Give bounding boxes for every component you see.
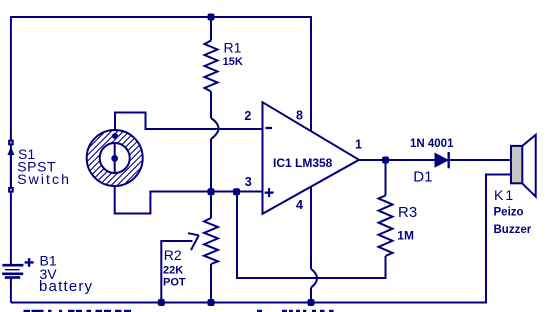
svg-text:1: 1 bbox=[355, 138, 362, 152]
svg-text:8: 8 bbox=[296, 109, 303, 123]
svg-text:R3: R3 bbox=[398, 204, 417, 221]
svg-text:2: 2 bbox=[244, 109, 251, 123]
svg-text:15K: 15K bbox=[223, 56, 243, 68]
svg-text:D1: D1 bbox=[413, 169, 432, 186]
svg-text:Peizo: Peizo bbox=[494, 207, 524, 219]
svg-text:Switch: Switch bbox=[17, 171, 71, 187]
svg-text:POT: POT bbox=[163, 277, 186, 289]
svg-text:3: 3 bbox=[245, 175, 252, 189]
svg-text:4: 4 bbox=[296, 198, 303, 212]
svg-text:R1: R1 bbox=[224, 40, 242, 56]
svg-text:R2: R2 bbox=[164, 247, 182, 263]
svg-text:IC1 LM358: IC1 LM358 bbox=[273, 156, 333, 170]
svg-text:Buzzer: Buzzer bbox=[494, 224, 532, 236]
svg-text:1N 4001: 1N 4001 bbox=[410, 138, 454, 150]
svg-text:K1: K1 bbox=[494, 187, 515, 203]
svg-text:1M: 1M bbox=[397, 229, 414, 243]
svg-text:battery: battery bbox=[39, 278, 93, 295]
svg-text:22K: 22K bbox=[163, 264, 183, 276]
